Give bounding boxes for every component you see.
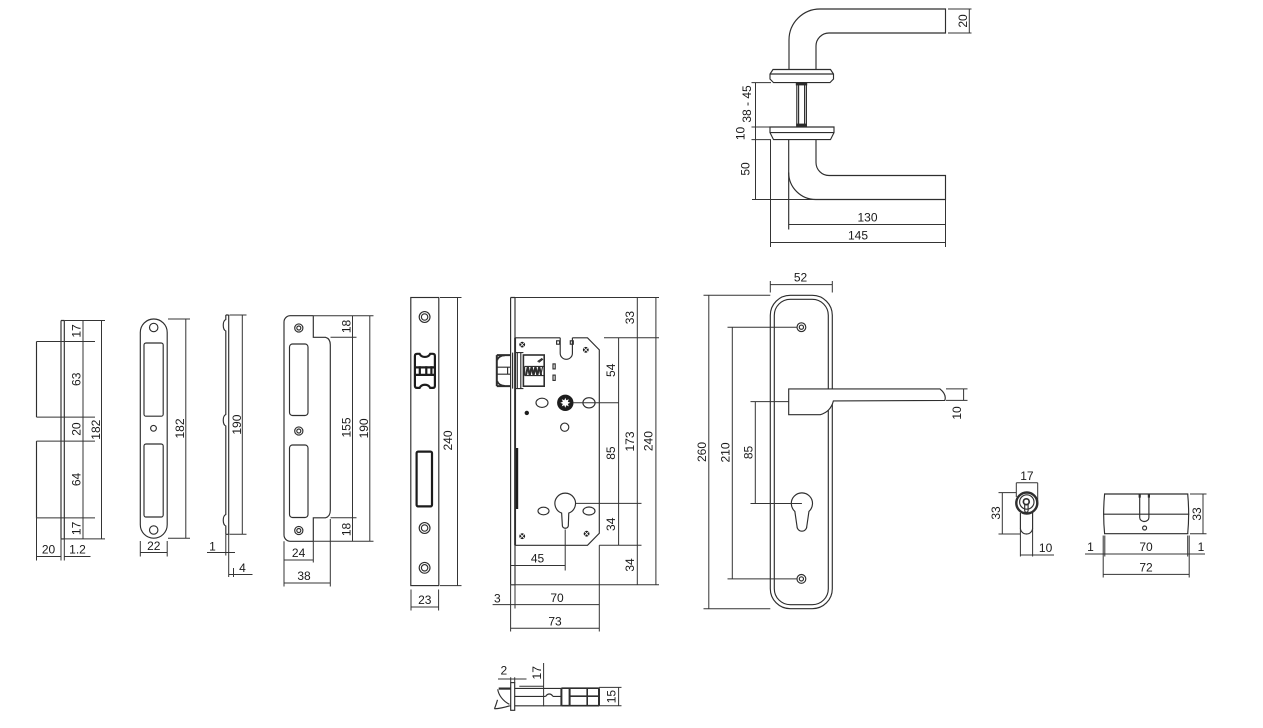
svg-text:52: 52 [794, 271, 808, 285]
svg-text:17: 17 [70, 521, 84, 535]
svg-text:240: 240 [441, 430, 455, 450]
svg-text:34: 34 [623, 558, 637, 572]
svg-text:182: 182 [173, 418, 187, 438]
svg-text:240: 240 [642, 431, 656, 451]
svg-text:85: 85 [741, 446, 755, 460]
svg-text:23: 23 [418, 593, 432, 607]
svg-text:130: 130 [857, 211, 877, 225]
svg-text:145: 145 [848, 229, 868, 243]
svg-text:63: 63 [70, 372, 84, 386]
svg-text:45: 45 [531, 552, 545, 566]
svg-text:3: 3 [494, 591, 501, 605]
svg-text:24: 24 [292, 546, 306, 560]
svg-text:20: 20 [70, 422, 84, 436]
svg-text:210: 210 [718, 442, 732, 462]
svg-text:33: 33 [623, 311, 637, 325]
svg-text:72: 72 [1139, 560, 1153, 574]
svg-text:34: 34 [604, 517, 618, 531]
svg-text:18: 18 [339, 320, 353, 334]
svg-text:1.2: 1.2 [69, 543, 86, 557]
svg-text:38 - 45: 38 - 45 [740, 85, 754, 123]
svg-text:20: 20 [956, 14, 970, 28]
svg-text:10: 10 [950, 406, 964, 420]
svg-text:64: 64 [70, 473, 84, 487]
svg-text:17: 17 [530, 666, 544, 680]
svg-text:17: 17 [1020, 469, 1034, 483]
svg-text:70: 70 [1139, 540, 1153, 554]
svg-text:73: 73 [548, 615, 562, 629]
svg-text:33: 33 [1190, 507, 1204, 521]
svg-text:18: 18 [339, 523, 353, 537]
svg-text:38: 38 [297, 569, 311, 583]
svg-text:17: 17 [70, 324, 84, 338]
svg-text:54: 54 [604, 363, 618, 377]
svg-text:182: 182 [89, 419, 103, 439]
svg-text:4: 4 [239, 561, 246, 575]
svg-text:50: 50 [739, 162, 753, 176]
svg-text:190: 190 [230, 414, 244, 434]
svg-text:1: 1 [209, 540, 216, 554]
svg-text:173: 173 [623, 431, 637, 451]
svg-text:33: 33 [989, 506, 1003, 520]
svg-text:1: 1 [1087, 540, 1094, 554]
svg-text:10: 10 [734, 127, 748, 141]
svg-text:190: 190 [357, 418, 371, 438]
svg-text:15: 15 [605, 690, 619, 704]
svg-text:70: 70 [550, 591, 564, 605]
svg-text:10: 10 [1039, 541, 1053, 555]
svg-text:85: 85 [604, 446, 618, 460]
svg-text:155: 155 [339, 417, 353, 437]
svg-text:20: 20 [42, 543, 56, 557]
svg-text:1: 1 [1198, 540, 1205, 554]
svg-text:22: 22 [147, 539, 161, 553]
svg-text:2: 2 [500, 664, 507, 678]
svg-text:260: 260 [695, 442, 709, 462]
